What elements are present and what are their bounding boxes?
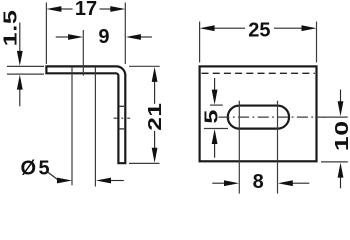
slot centre line crossing side view leg	[114, 117, 118, 119]
dim 25 arrow right	[302, 25, 317, 31]
dim 9 arrow left (outside, pointing right)	[56, 36, 69, 38]
dim 17 extension line left	[45, 3, 47, 65]
dim 17 dimension line	[59, 8, 73, 10]
dim 21 extension line top	[129, 65, 160, 67]
plate face rectangle	[200, 66, 317, 161]
dim 5 extension tick bottom (slot bottom)	[204, 128, 228, 130]
dim 9 arrow right (outside, pointing left)	[140, 36, 152, 38]
dim 1.5 extension line top	[7, 65, 44, 67]
svg-text:9: 9	[98, 26, 109, 48]
svg-text:10: 10	[331, 120, 350, 151]
dim 5 upper arrow (outside, pointing down)	[214, 78, 216, 93]
dim 10 upper arrow (outside, pointing down)	[340, 90, 342, 105]
dim 17 arrow left	[46, 6, 61, 12]
dim Ø5 leader line	[48, 172, 59, 181]
dim 25 arrow left	[200, 25, 215, 31]
dim 8 arrow right (outside, pointing left)	[291, 182, 310, 184]
dim 8 arrow left (outside, pointing right)	[212, 182, 226, 184]
dim 25 dimension line	[212, 27, 245, 29]
hidden bend line (dashed)	[202, 72, 315, 74]
svg-text:25: 25	[248, 19, 270, 41]
dim 8 extension line right (through slot)	[277, 101, 279, 194]
dim 21 extension line bottom	[129, 162, 160, 164]
extension line for dim 10 bottom	[321, 161, 348, 163]
bracket body (L profile outline)	[46, 66, 125, 163]
dim 5 extension tick top (slot top)	[210, 104, 223, 106]
hole right edge line (extends below as extension line for Ø5)	[94, 67, 96, 187]
dim 5 lower arrow (outside, pointing up)	[214, 142, 216, 158]
dim 10 lower arrow (outside, pointing up)	[340, 176, 342, 188]
dim 17 extension line right	[124, 3, 126, 65]
dim 1.5 dimension line lower with up arrow	[19, 88, 21, 106]
svg-text:Ø5: Ø5	[21, 157, 53, 179]
hole left edge line (extends below as extension line for Ø5)	[71, 67, 73, 186]
dim 1.5 dimension line upper with down arrow	[19, 23, 21, 54]
dim 8 extension line left (through slot)	[238, 101, 240, 194]
slot hidden edge ticks in side view	[119, 105, 124, 107]
dim Ø5 arrow left (pointing right at hole edge)	[57, 178, 72, 184]
dim 1.5 extension line bottom	[7, 73, 44, 75]
svg-text:1.5: 1.5	[0, 9, 21, 46]
dim 21 dimension line with arrows (inside, pointing out)	[154, 80, 156, 104]
extension line for dim 10 top (from centre line)	[323, 116, 348, 118]
svg-text:8: 8	[253, 171, 264, 193]
svg-text:5: 5	[201, 110, 222, 124]
dim 25 extension line right	[316, 22, 318, 63]
svg-text:17: 17	[75, 0, 97, 20]
dim Ø5 arrow right (pointing left at hole edge)	[109, 180, 124, 182]
dim 17 arrow right	[110, 6, 125, 12]
hole centre line (extension for dim 9)	[82, 30, 84, 76]
slot (obround hole)	[228, 106, 289, 129]
svg-text:21: 21	[144, 102, 165, 130]
slot centre line (dash-dot)	[219, 116, 326, 118]
dim 25 extension line left	[199, 22, 201, 63]
